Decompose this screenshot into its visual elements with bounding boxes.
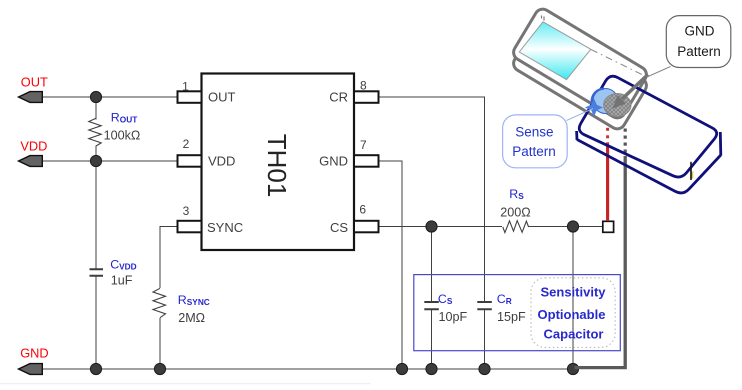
phone screen bbox=[519, 22, 591, 80]
gnd pattern callout bbox=[666, 16, 731, 68]
pin 2 box bbox=[178, 155, 202, 167]
red sense line solid bbox=[606, 147, 609, 222]
svg-text:8: 8 bbox=[360, 79, 367, 93]
blue star arrowhead bbox=[585, 99, 603, 117]
svg-text:VDD: VDD bbox=[20, 138, 47, 153]
svg-text:TH01: TH01 bbox=[262, 134, 292, 198]
faint page rule bottom bbox=[0, 383, 371, 384]
svg-text:OUT: OUT bbox=[208, 89, 236, 104]
svg-text:Pattern: Pattern bbox=[677, 44, 721, 59]
svg-text:CVDD: CVDD bbox=[110, 257, 136, 271]
pin 1 box bbox=[178, 91, 202, 103]
svg-text:VDD: VDD bbox=[208, 154, 235, 169]
svg-text:RS: RS bbox=[509, 187, 524, 201]
svg-text:CR: CR bbox=[497, 292, 512, 306]
resistor R_OUT zigzag bbox=[89, 118, 101, 146]
junction node GND/C_R bbox=[479, 363, 490, 374]
junction node CS/sense bbox=[567, 221, 578, 232]
wire SYNC pin3 to R_SYNC to GND bus bbox=[160, 227, 178, 370]
svg-text:3: 3 bbox=[183, 204, 190, 218]
sense pattern callout bbox=[503, 115, 568, 168]
svg-text:2MΩ: 2MΩ bbox=[178, 311, 205, 325]
svg-text:1uF: 1uF bbox=[111, 274, 133, 288]
thick gray GND return line with dotted top bbox=[575, 156, 626, 368]
navy box right strut bbox=[719, 132, 722, 156]
gnd callout leader bbox=[647, 67, 671, 78]
phone body bottom face bbox=[511, 17, 650, 132]
wire GND pin7 right then down to GND bus bbox=[379, 161, 403, 369]
port arrow GND bbox=[19, 364, 43, 375]
capacitor C_R plates bbox=[477, 302, 492, 309]
pin 6 box bbox=[354, 221, 379, 233]
gray dotted segment above bbox=[624, 129, 627, 153]
svg-text:Optionable: Optionable bbox=[538, 307, 606, 322]
phone body top face bbox=[511, 6, 650, 121]
capacitor C_VDD plates bbox=[90, 269, 104, 276]
wire CS pin6 row to square terminal bbox=[379, 226, 603, 228]
svg-text:Sense: Sense bbox=[515, 124, 553, 139]
navy pcb box bottom face bbox=[577, 140, 721, 193]
wire C_S vertical bbox=[431, 227, 433, 370]
pin 3 box bbox=[178, 221, 202, 233]
svg-text:Sensitivity: Sensitivity bbox=[540, 284, 606, 299]
blue box sensitivity optionable capacitor bbox=[414, 275, 621, 351]
junction node GND/sense return bbox=[567, 363, 578, 374]
dotted rounded box bbox=[531, 278, 615, 348]
gnd pattern crosshatch blob bbox=[604, 94, 631, 117]
svg-text:CR: CR bbox=[329, 89, 348, 104]
svg-text:Capacitor: Capacitor bbox=[544, 327, 604, 342]
junction node GND/R_SYNC bbox=[154, 363, 165, 374]
wire CR pin8 right then down to C_R bbox=[379, 97, 485, 369]
sense pattern blue circle bbox=[593, 89, 618, 114]
svg-text:15pF: 15pF bbox=[497, 310, 526, 324]
svg-text:100kΩ: 100kΩ bbox=[104, 128, 141, 142]
svg-text:OUT: OUT bbox=[21, 74, 48, 89]
square sense terminal bbox=[603, 221, 614, 232]
svg-text:SYNC: SYNC bbox=[207, 220, 243, 235]
wire vertical x=96 OUT to VDD through R_OUT bbox=[95, 97, 97, 161]
junction node GND/C_S bbox=[426, 363, 437, 374]
junction node VDD/R_OUT bbox=[90, 155, 101, 166]
navy pcb box top face bbox=[579, 76, 716, 177]
navy box left strut bbox=[575, 131, 578, 140]
junction node GND/pin7 bbox=[396, 363, 407, 374]
svg-text:Pattern: Pattern bbox=[512, 144, 556, 159]
phone speaker dots bbox=[542, 16, 545, 21]
svg-text:2: 2 bbox=[183, 137, 190, 151]
svg-text:CS: CS bbox=[438, 292, 453, 306]
wire OUT row from arrow to pin1 bbox=[42, 96, 178, 98]
blue rotation arc bbox=[592, 89, 604, 110]
svg-text:GND: GND bbox=[319, 154, 348, 169]
junction node GND/C_VDD bbox=[90, 363, 101, 374]
red dotted segment above bbox=[606, 113, 609, 146]
svg-text:GND: GND bbox=[685, 24, 715, 39]
pin 8 box bbox=[354, 91, 379, 103]
phone centerline dash-dot bbox=[591, 50, 648, 78]
contact tick mark bbox=[690, 172, 693, 179]
resistor R_SYNC zigzag bbox=[153, 288, 166, 317]
svg-text:1: 1 bbox=[182, 80, 189, 94]
resistor R_S zigzag bbox=[503, 221, 529, 233]
svg-text:6: 6 bbox=[359, 203, 366, 217]
svg-text:RSYNC: RSYNC bbox=[178, 293, 210, 307]
svg-text:GND: GND bbox=[20, 346, 48, 361]
sense callout leader bbox=[567, 109, 594, 121]
svg-text:10pF: 10pF bbox=[439, 310, 468, 324]
wire x=573 CS row down to GND bus bbox=[572, 227, 574, 370]
wire GND bus bottom bbox=[42, 368, 573, 370]
capacitor C_S plates bbox=[424, 302, 439, 309]
gray arrow into gnd pattern bbox=[622, 75, 648, 100]
junction node CS/C_S bbox=[426, 221, 437, 232]
IC U1 TH01 body bbox=[202, 74, 355, 251]
svg-text:CS: CS bbox=[330, 220, 348, 235]
wire vertical x=96 VDD down through C_VDD to GND bus bbox=[95, 161, 97, 369]
svg-text:200Ω: 200Ω bbox=[500, 205, 530, 219]
svg-text:7: 7 bbox=[360, 138, 367, 152]
svg-text:ROUT: ROUT bbox=[111, 111, 137, 125]
junction node OUT/R_OUT bbox=[90, 91, 101, 102]
wire VDD row from arrow to pin2 bbox=[42, 160, 178, 162]
port arrow VDD bbox=[19, 156, 43, 167]
pin 7 box bbox=[354, 155, 379, 167]
port arrow OUT bbox=[19, 92, 43, 103]
